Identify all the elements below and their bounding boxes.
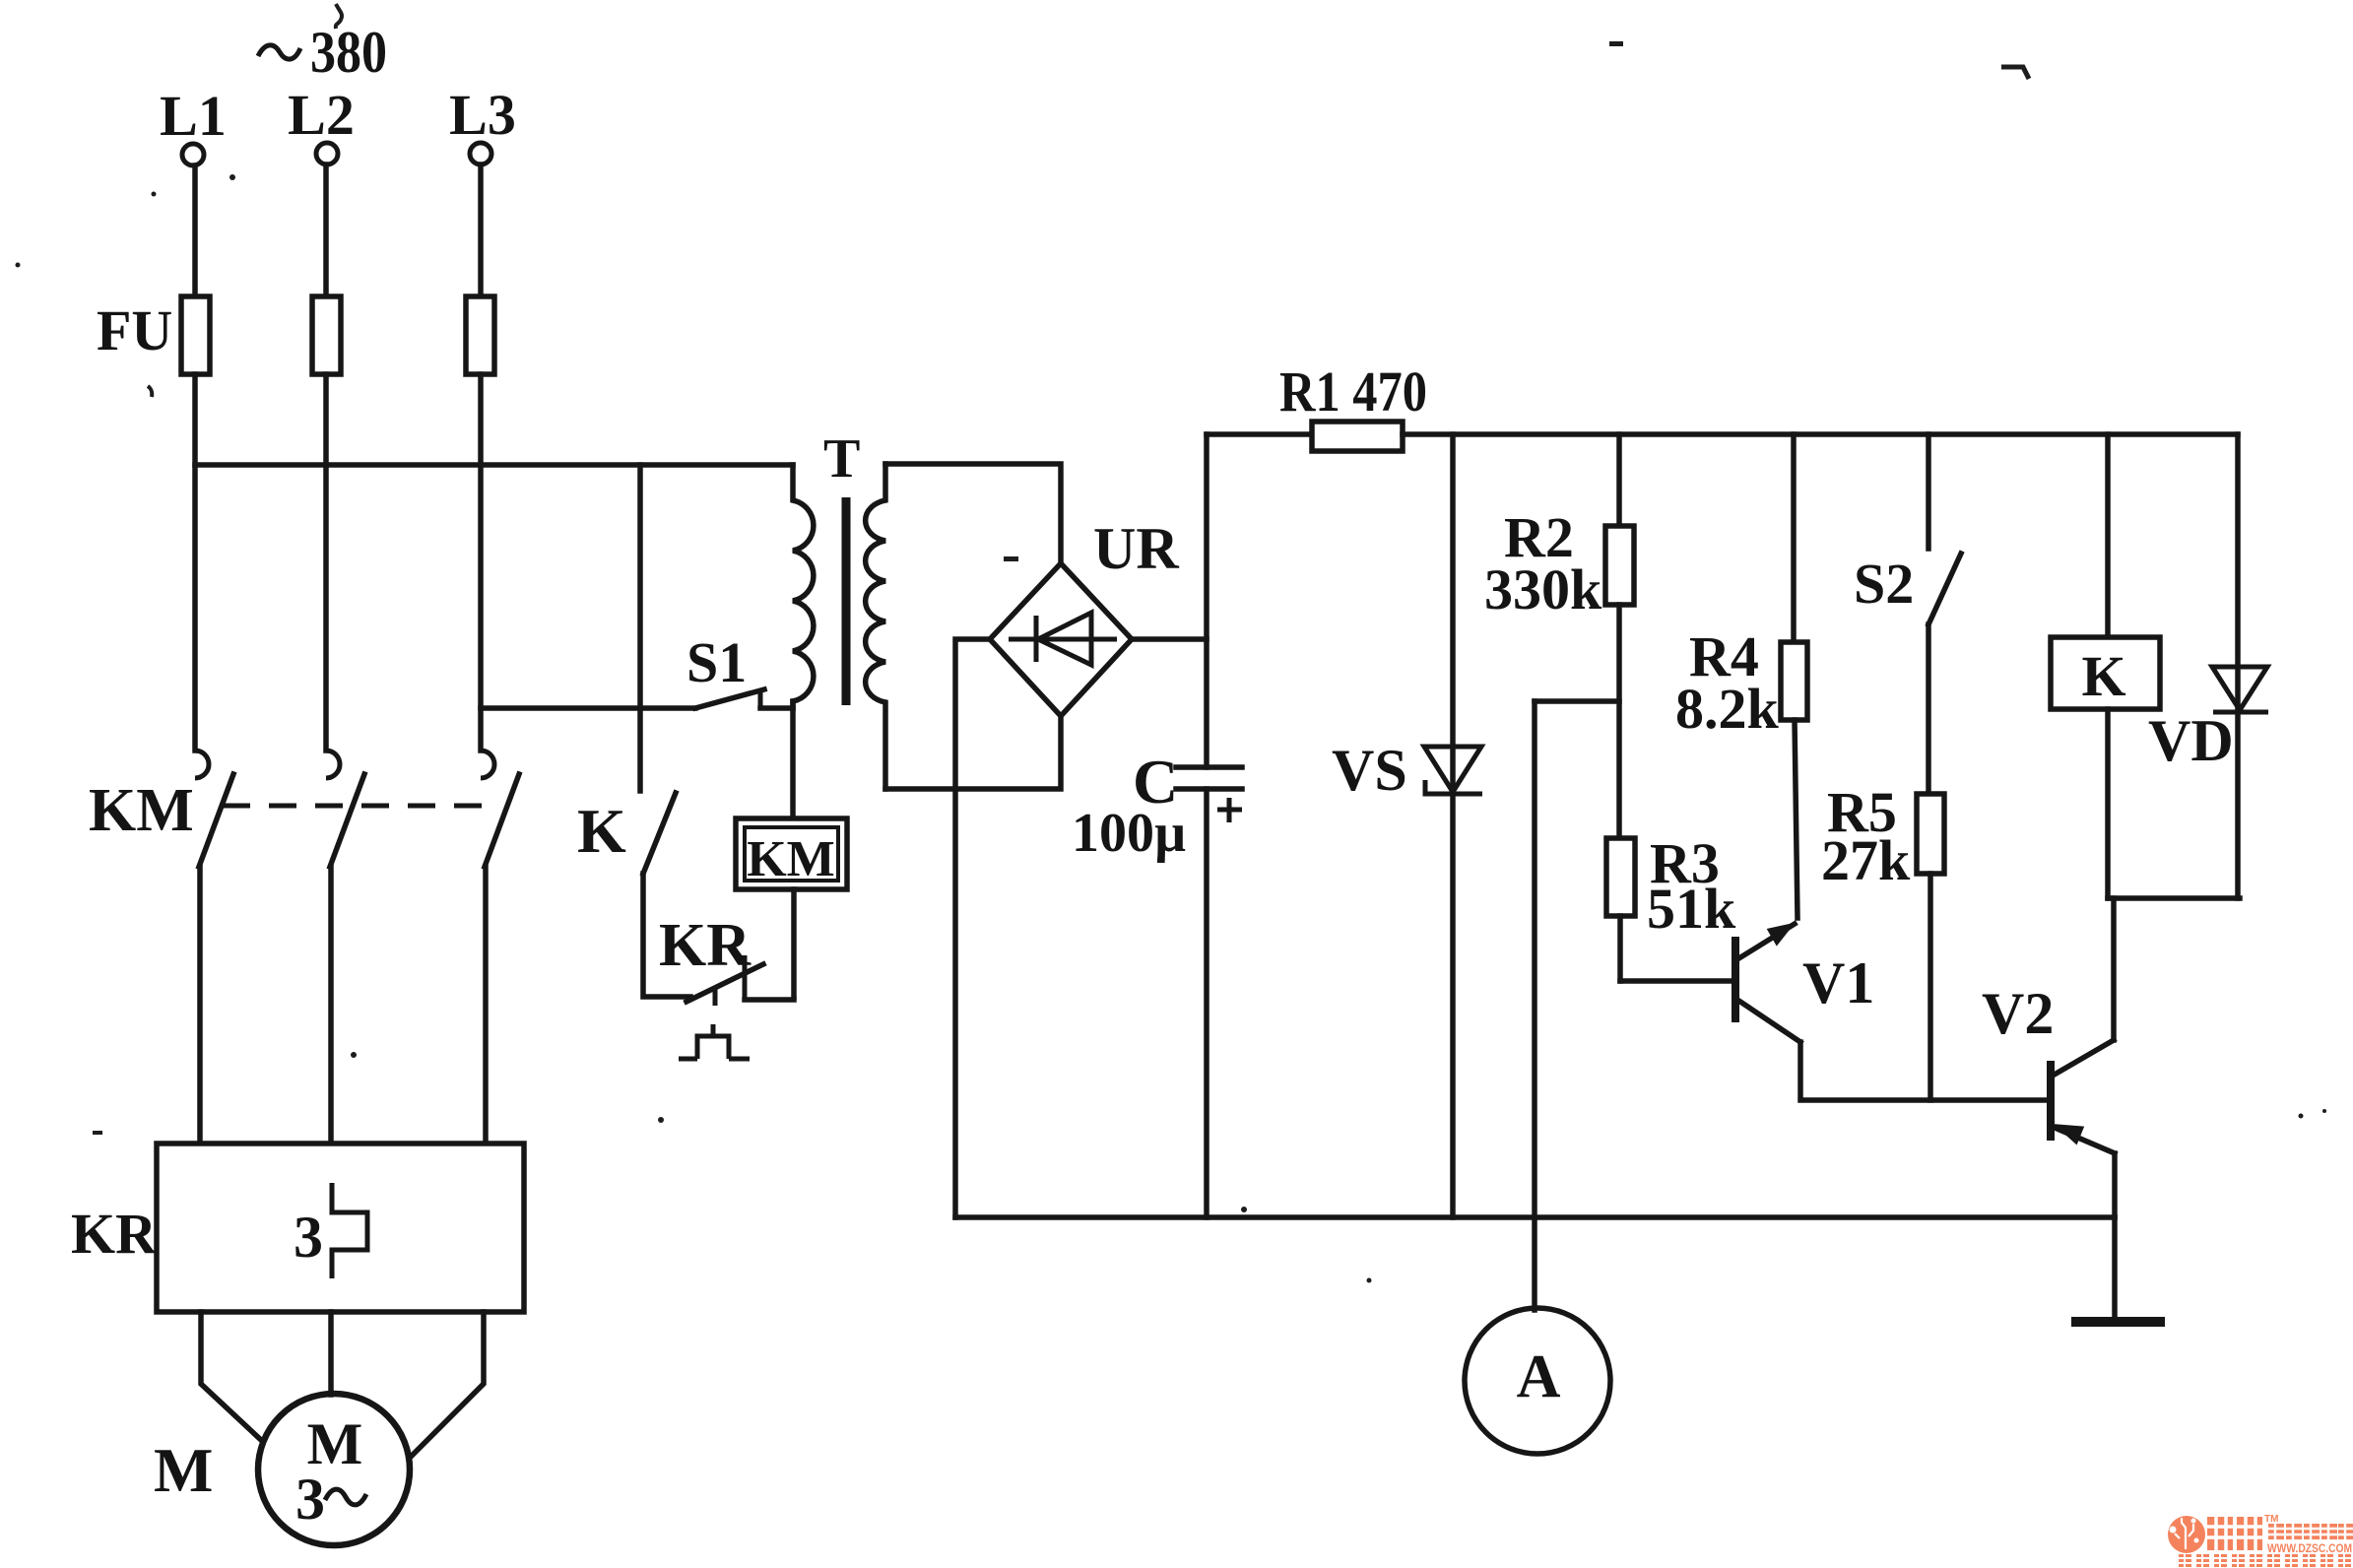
terminal L1 <box>182 144 204 165</box>
switch S2 <box>1928 434 1961 624</box>
label 3~ inside motor <box>295 1467 366 1532</box>
terminal L3 <box>470 143 491 164</box>
svg-text:100µ: 100µ <box>1072 803 1186 864</box>
dashed mechanical link KM <box>223 804 500 809</box>
transformer T primary winding <box>793 465 814 708</box>
wire L2 fuse to KM contact <box>323 374 329 751</box>
svg-text:330k: 330k <box>1484 557 1602 621</box>
wire KM phase1 to KR box <box>197 867 203 1143</box>
svg-text:M: M <box>154 1435 213 1505</box>
svg-text:S1: S1 <box>686 630 747 694</box>
svg-text:3: 3 <box>294 1205 323 1270</box>
wire bridge positive to rail <box>1132 636 1207 642</box>
wire negative bus <box>955 1214 2115 1220</box>
diode VD <box>2212 434 2268 898</box>
switch S1 <box>695 689 793 708</box>
capacitor C <box>1176 767 1242 822</box>
resistor R3 <box>1606 838 1635 981</box>
contactor KM contact phase3 <box>481 751 519 867</box>
svg-text:R1 470: R1 470 <box>1279 359 1427 424</box>
wire KR to motor right <box>410 1312 484 1458</box>
wire capacitor to negative bus <box>1204 789 1209 1217</box>
svg-text:3: 3 <box>295 1467 325 1532</box>
transistor V2 <box>2051 1040 2115 1153</box>
watermark logo <box>2168 1516 2205 1553</box>
svg-text:KM: KM <box>89 777 194 844</box>
watermark slogan <box>2179 1554 2351 1567</box>
resistor R4 <box>1781 434 1807 918</box>
svg-text:S2: S2 <box>1854 552 1914 616</box>
svg-text:L3: L3 <box>449 83 516 147</box>
svg-text:380: 380 <box>310 20 387 85</box>
bridge rectifier UR <box>990 563 1132 716</box>
contactor KM contact phase1 <box>195 751 233 867</box>
thermal relay KR box <box>157 1143 524 1312</box>
svg-text:27k: 27k <box>1821 828 1911 892</box>
svg-text:FU: FU <box>97 298 172 362</box>
wire KM coil bottom <box>791 889 797 997</box>
svg-text:A: A <box>1517 1343 1561 1410</box>
fuse FU phase2 <box>312 296 341 374</box>
wire KM coil top <box>790 701 796 818</box>
wire K switch down <box>643 874 690 997</box>
wire L2 to fuse <box>323 164 329 296</box>
contact KR normally-closed <box>686 955 794 1006</box>
wire top bus left of R1 <box>1207 431 1312 437</box>
wire L3 to fuse <box>478 164 484 296</box>
wire R3 to V1 base <box>1620 978 1731 984</box>
label ~380 <box>258 20 387 85</box>
svg-text:KR: KR <box>71 1202 158 1266</box>
svg-text:K: K <box>2081 644 2125 708</box>
wire R2-R3 junction to ammeter branch <box>1535 698 1619 704</box>
ground <box>2071 1217 2165 1322</box>
resistor R5 <box>1917 794 1944 1100</box>
svg-text:WWW.DZSC.COM: WWW.DZSC.COM <box>2267 1541 2352 1555</box>
svg-text:L2: L2 <box>288 83 355 147</box>
svg-text:VS: VS <box>1332 738 1407 803</box>
svg-text:V1: V1 <box>1802 950 1874 1015</box>
wire ammeter branch <box>1532 701 1537 1310</box>
push-button reset symbol <box>679 1024 750 1059</box>
transformer core <box>842 497 851 705</box>
switch K <box>643 793 676 874</box>
relay coil K box <box>2051 637 2160 709</box>
wire secondary top to bridge <box>885 464 1061 564</box>
resistor R1 <box>1312 422 1403 451</box>
wire KR to motor middle <box>328 1312 334 1395</box>
svg-text:T: T <box>823 428 860 490</box>
contactor KM contact phase2 <box>326 751 364 867</box>
wire K branch from top bus <box>637 465 643 791</box>
svg-text:V2: V2 <box>1982 981 2054 1046</box>
wire L1 fuse to KM contact <box>192 374 198 751</box>
terminal L2 <box>316 143 338 164</box>
wire K relay from top bus <box>2105 434 2111 637</box>
svg-text:TM: TM <box>2264 1514 2278 1525</box>
transistor V1 <box>1735 924 1800 1042</box>
thermal element symbol <box>332 1183 367 1278</box>
contactor coil KM box <box>736 818 847 889</box>
wire V2 emitter to ground <box>2112 1153 2118 1217</box>
wire L3 fuse to KM contact <box>478 374 484 751</box>
wire top bus right of R1 <box>1403 431 2238 437</box>
wire L1 to fuse <box>192 165 198 296</box>
wire KM phase2 to KR box <box>328 867 334 1143</box>
wire L3 branch to S1 <box>481 705 695 711</box>
ammeter A <box>1465 1308 1610 1454</box>
wire bridge negative down <box>955 639 990 1217</box>
svg-text:KR: KR <box>659 912 752 979</box>
fuse FU phase3 <box>466 296 494 374</box>
svg-text:8.2k: 8.2k <box>1675 677 1780 741</box>
fuse FU phase1 <box>181 296 210 374</box>
wire KM phase3 to KR box <box>483 867 489 1143</box>
wire V1 collector to V2 base <box>1800 1042 2049 1100</box>
svg-text:51k: 51k <box>1647 877 1736 941</box>
wire S2 to R5 <box>1926 624 1931 794</box>
svg-text:UR: UR <box>1093 516 1179 581</box>
wire KR to motor left <box>201 1312 261 1440</box>
svg-text:VD: VD <box>2148 708 2234 773</box>
zener diode VS <box>1424 434 1482 1217</box>
watermark small characters <box>2268 1524 2353 1539</box>
svg-text:K: K <box>577 796 626 866</box>
wire K relay bottom <box>2105 709 2111 898</box>
wire secondary bottom to bridge <box>885 716 1061 789</box>
svg-text:KM: KM <box>747 831 835 887</box>
svg-text:L1: L1 <box>160 84 227 148</box>
wire positive rail <box>1204 434 1209 767</box>
watermark big characters <box>2207 1514 2278 1550</box>
motor M circle <box>258 1394 410 1545</box>
wire K to VD junction <box>2108 895 2240 901</box>
transformer T secondary winding <box>866 464 885 789</box>
wire junction to V2 collector <box>2111 898 2117 1040</box>
resistor R2 <box>1605 434 1634 838</box>
wire top bus L1 to transformer primary <box>195 462 793 468</box>
